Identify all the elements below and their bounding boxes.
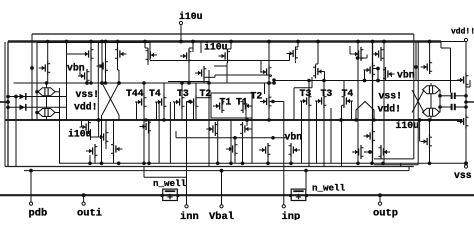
wire — [373, 68, 378, 70]
junction — [418, 118, 422, 122]
wire — [105, 144, 107, 149]
wire — [117, 61, 119, 70]
junction vdd bus — [100, 40, 104, 44]
wire gate hook — [324, 72, 326, 81]
junction vdd bus — [371, 40, 375, 44]
junction mid bus b — [339, 118, 343, 122]
nmos M23 — [86, 144, 98, 158]
pin inn — [185, 205, 188, 208]
junction vbal — [220, 169, 224, 173]
wire gate hook — [289, 54, 291, 61]
wire gate hook — [391, 74, 393, 77]
wire lower rail B — [24, 170, 409, 172]
nmos M29 — [352, 145, 364, 159]
junction vdd bus — [191, 40, 195, 44]
junction — [207, 81, 211, 85]
wire vertical x231 — [230, 120, 232, 164]
svg-text:i10u: i10u — [179, 11, 203, 22]
junction — [464, 94, 468, 98]
nmos T3 ra — [300, 94, 312, 108]
wire vertical x429b — [429, 120, 431, 135]
wire — [55, 112, 60, 114]
junction — [464, 100, 468, 104]
junction inn — [188, 100, 192, 104]
junction vss rail — [147, 162, 151, 166]
wire vertical x358 — [357, 42, 359, 164]
wire vertical x16 — [15, 97, 17, 167]
wire rail y60 — [150, 60, 290, 62]
junction — [233, 136, 237, 140]
wire — [98, 120, 100, 137]
wire — [101, 115, 103, 163]
wire right edge stub — [466, 101, 474, 103]
wire — [118, 115, 120, 120]
wire stub — [408, 167, 410, 171]
pmos M25 — [240, 122, 252, 136]
wire — [226, 63, 228, 83]
svg-text:vss!: vss! — [76, 89, 100, 100]
wire — [430, 83, 432, 86]
nmos T2 — [187, 95, 199, 109]
junction vss rail r — [428, 162, 432, 166]
svg-text:T2: T2 — [251, 91, 263, 102]
wire M7-M8 link — [215, 74, 272, 76]
junction — [89, 81, 93, 85]
wire — [341, 106, 343, 167]
wire — [323, 81, 325, 95]
gate device B — [20, 104, 26, 111]
pin pdb — [29, 202, 32, 205]
wire vertical x384 — [383, 42, 385, 164]
gate device A — [20, 93, 26, 100]
junction vdd bus — [382, 40, 386, 44]
wire — [105, 73, 107, 83]
wire vertical x269 — [268, 42, 270, 121]
wire — [377, 69, 379, 81]
wire — [323, 108, 325, 167]
junction gate tap — [100, 64, 104, 68]
wire gate drop — [174, 102, 176, 120]
wire left border — [7, 42, 9, 167]
wire vertical x170 — [169, 102, 171, 163]
wire gate drop r — [301, 101, 303, 163]
wire — [91, 136, 99, 138]
wire right vdd column — [465, 42, 467, 164]
svg-text:vbn: vbn — [67, 63, 85, 74]
wire — [203, 80, 205, 83]
svg-text:vdd!: vdd! — [378, 104, 402, 115]
svg-text:outi: outi — [77, 208, 102, 220]
pass pair right upper — [423, 86, 440, 94]
wire — [46, 96, 48, 109]
wire — [455, 95, 466, 97]
junction vss rail end — [464, 161, 468, 165]
nmos M22 — [111, 142, 123, 156]
junction — [376, 67, 380, 71]
wire — [175, 131, 177, 138]
wire — [311, 77, 313, 88]
wire — [163, 83, 165, 95]
junction vdd bus — [316, 40, 320, 44]
junction — [464, 162, 468, 166]
wire — [105, 120, 107, 130]
wire corner right — [466, 86, 470, 88]
wire gate drop — [136, 102, 138, 120]
junction — [187, 81, 191, 85]
wire — [143, 120, 145, 163]
wire stub b — [400, 163, 402, 166]
wire vertical x59 — [59, 88, 61, 163]
wire — [429, 42, 431, 61]
wire — [195, 83, 197, 95]
pass pair left lower — [38, 109, 55, 117]
pmos M8 — [260, 65, 272, 79]
svg-text:vss: vss — [454, 170, 472, 181]
junction — [144, 118, 148, 122]
wire — [144, 176, 187, 178]
svg-text:i10u: i10u — [68, 129, 92, 140]
wire mid bus — [5, 119, 462, 121]
mirror box T1 pair — [211, 93, 252, 118]
wire — [455, 106, 466, 108]
wire inp tap — [269, 101, 284, 103]
junction vdd bus — [229, 40, 233, 44]
wire — [90, 42, 92, 48]
junction — [85, 81, 89, 85]
junction vdd bus — [267, 40, 271, 44]
junction — [142, 81, 146, 85]
junction vdd bus — [296, 40, 300, 44]
wire — [113, 156, 115, 163]
wire — [214, 75, 216, 77]
wire gate — [67, 53, 83, 55]
wire gate drop r — [316, 101, 318, 163]
nmos T4 r — [342, 94, 354, 108]
junction — [46, 40, 50, 44]
pmos M4 — [146, 48, 158, 62]
junction — [229, 162, 233, 166]
wire left edge stub — [0, 101, 8, 103]
wire gate hook — [246, 120, 248, 127]
junction — [272, 81, 276, 85]
svg-text:T1: T1 — [220, 97, 232, 108]
nmos T44 — [135, 95, 147, 109]
junction — [363, 79, 367, 83]
wire — [350, 53, 352, 55]
junction — [272, 78, 276, 82]
junction — [180, 81, 184, 85]
wire — [465, 129, 467, 164]
pmos M14 — [383, 67, 395, 81]
junction vdd bus — [143, 40, 147, 44]
wire outi stem — [83, 195, 85, 202]
junction X top a — [100, 81, 104, 85]
wire lower rail A — [5, 166, 414, 168]
junction vss rail — [100, 162, 104, 166]
junction — [45, 81, 49, 85]
wire — [188, 48, 190, 49]
junction tent a — [354, 118, 358, 122]
pin vss — [464, 165, 467, 168]
wire — [297, 42, 299, 48]
wire hook — [316, 63, 319, 65]
svg-text:vbn: vbn — [285, 131, 303, 142]
nmos M33 — [457, 73, 469, 87]
wire — [46, 117, 48, 121]
wire — [358, 57, 368, 59]
junction — [267, 118, 271, 122]
junction mid bus — [245, 118, 249, 122]
wire gate rail b — [8, 106, 67, 108]
wire — [293, 88, 295, 120]
wire — [308, 81, 310, 95]
wire — [430, 94, 432, 109]
svg-text:Vbal: Vbal — [209, 211, 234, 220]
nmos M30 — [379, 145, 391, 159]
wire vdd bus — [8, 40, 441, 42]
junction — [438, 94, 442, 98]
pmos M24 — [206, 122, 218, 136]
wire outer left border — [4, 42, 6, 167]
wire rail y83 — [14, 82, 275, 84]
wire — [343, 81, 345, 95]
wire gate drop — [193, 102, 195, 120]
wire vertical x418 — [417, 42, 419, 165]
wire — [294, 87, 312, 89]
pmos M9 — [287, 47, 299, 61]
wire — [55, 91, 60, 93]
wire gate hook — [81, 121, 83, 128]
wire outp stem — [379, 195, 381, 202]
junction — [376, 79, 380, 83]
pmos M2 — [97, 59, 109, 73]
nmos T1 a — [213, 99, 225, 113]
pmos M11 — [352, 47, 364, 61]
svg-text:n_well: n_well — [312, 183, 346, 194]
nmos M21 — [97, 130, 109, 144]
wire — [264, 83, 266, 94]
pmos M6 — [219, 49, 231, 63]
wire vbn rail — [176, 137, 287, 139]
wire — [47, 42, 49, 62]
junction — [162, 118, 166, 122]
pass pair left upper — [38, 88, 55, 96]
svg-text:outp: outp — [373, 208, 398, 220]
nmos M20 — [80, 120, 92, 134]
junction — [307, 79, 311, 83]
junction — [438, 105, 442, 109]
wire — [192, 42, 194, 53]
junction — [97, 118, 101, 122]
wire gate drop r2 — [351, 101, 353, 120]
junction — [414, 65, 418, 69]
junction — [428, 118, 432, 122]
pin outi — [82, 202, 85, 205]
nmos M16 — [39, 61, 51, 75]
wire — [207, 76, 216, 78]
wire — [46, 83, 48, 88]
svg-text:n_well: n_well — [153, 178, 187, 189]
wire — [118, 69, 120, 71]
svg-text:T3: T3 — [321, 88, 333, 99]
wire — [195, 109, 197, 120]
svg-text:pdb: pdb — [29, 208, 48, 220]
wire vertical x440 — [439, 90, 441, 113]
junction pdb — [29, 169, 33, 173]
junction vdd bus — [428, 40, 432, 44]
pin i10u — [179, 21, 182, 24]
wire vertical x102 — [101, 42, 103, 84]
wire inp stem — [283, 102, 285, 205]
wire — [189, 47, 193, 49]
wire — [90, 58, 92, 83]
nmos M31 — [421, 135, 433, 149]
junction vdd bus — [116, 40, 120, 44]
junction — [6, 95, 10, 99]
wire inn tap — [187, 101, 191, 103]
wire mirror box edge — [200, 42, 202, 54]
svg-text:vbn: vbn — [397, 70, 415, 81]
svg-text:i10u: i10u — [204, 42, 228, 53]
junction — [266, 162, 270, 166]
wire inner rail 2 — [37, 42, 150, 44]
wire — [273, 80, 275, 83]
wire — [295, 61, 297, 63]
nmos T1 b — [241, 99, 253, 113]
wire — [242, 134, 244, 164]
wire — [440, 95, 452, 97]
wire gate rail a — [8, 96, 67, 98]
pmos M5 — [180, 49, 192, 63]
wire M8 gate up — [260, 61, 262, 73]
nmos M32 — [457, 115, 469, 129]
wire — [364, 151, 370, 153]
svg-text:T44: T44 — [126, 88, 144, 99]
n-well device right — [289, 189, 308, 200]
junction — [104, 81, 108, 85]
pin outp — [378, 202, 381, 205]
wire — [94, 158, 96, 163]
wire — [419, 120, 421, 142]
wire to box — [199, 97, 212, 99]
junction outp — [378, 193, 382, 197]
wire hook — [145, 47, 148, 49]
svg-text:i10u: i10u — [396, 120, 420, 131]
wire vertical x331 — [330, 108, 332, 163]
wire — [450, 48, 452, 93]
nmos T2 right — [260, 95, 272, 109]
wire — [245, 107, 247, 120]
nmos M18 — [78, 69, 90, 83]
wire — [147, 62, 149, 65]
wire vertical x32 — [31, 34, 33, 120]
junction — [241, 162, 245, 166]
wire — [469, 80, 471, 87]
riser tent symbol — [356, 102, 374, 121]
wire nwell riser — [305, 171, 307, 190]
wire — [148, 120, 150, 163]
wire — [349, 46, 351, 54]
wire — [317, 42, 319, 65]
wire — [364, 70, 366, 81]
wire — [441, 47, 451, 49]
junction outi — [82, 193, 86, 197]
junction i10u — [179, 40, 183, 44]
junction vss rail r — [356, 162, 360, 166]
wire — [181, 83, 183, 95]
junction X top b — [117, 81, 121, 85]
junction vss rail — [117, 162, 121, 166]
crossing pair right — [412, 90, 424, 113]
wire — [308, 108, 310, 167]
nmos T3 — [173, 95, 185, 109]
junction — [304, 169, 308, 173]
wire — [230, 42, 232, 50]
capacitor C1 — [452, 93, 455, 99]
pmos M13 — [364, 63, 376, 77]
junction vss rail r — [381, 162, 385, 166]
pmos M1 — [82, 47, 94, 61]
junction — [35, 111, 39, 115]
wire vertical x37 — [36, 43, 38, 121]
wire vss rail — [59, 162, 466, 164]
junction — [464, 105, 468, 109]
wire vertical x209 — [208, 70, 210, 167]
junction — [289, 162, 293, 166]
wire — [271, 75, 273, 76]
junction — [216, 162, 220, 166]
wire — [144, 42, 146, 49]
wire pdb stem — [30, 171, 32, 202]
wire bottom bus — [0, 194, 474, 196]
junction — [271, 136, 275, 140]
wire rail y80 — [274, 80, 462, 82]
wire i10u stem — [180, 25, 182, 42]
nmos T3 rb — [315, 94, 327, 108]
pmos M3 — [115, 47, 127, 61]
junction tent b — [372, 118, 376, 122]
junction — [356, 56, 360, 60]
wire — [430, 116, 432, 120]
wire corner down — [143, 167, 145, 178]
junction vss rail — [88, 162, 92, 166]
wire vertical x372 — [372, 42, 374, 164]
svg-text:T4: T4 — [149, 88, 161, 99]
wire gate hook up — [79, 70, 81, 76]
wire hook — [296, 46, 299, 48]
nmos M26 — [226, 142, 238, 156]
junction vbn gate — [30, 66, 34, 70]
wire — [366, 55, 368, 59]
nmos M28 — [289, 143, 301, 157]
wire corner — [149, 43, 151, 61]
wire vertical x98 — [97, 42, 99, 121]
pin Vbal — [220, 205, 223, 208]
svg-text:T4: T4 — [342, 88, 354, 99]
wire — [234, 138, 236, 142]
junction — [35, 90, 39, 94]
wire — [439, 111, 442, 113]
svg-text:inn: inn — [180, 211, 199, 220]
svg-text:vss!: vss! — [379, 91, 403, 102]
pin vdd!! — [464, 38, 467, 41]
pmos M12 — [372, 47, 384, 61]
capacitor C2 — [452, 104, 455, 110]
wire gate drop — [156, 102, 158, 120]
wire — [228, 48, 232, 50]
wire inn stem — [186, 102, 188, 205]
junction vss rail — [142, 162, 146, 166]
